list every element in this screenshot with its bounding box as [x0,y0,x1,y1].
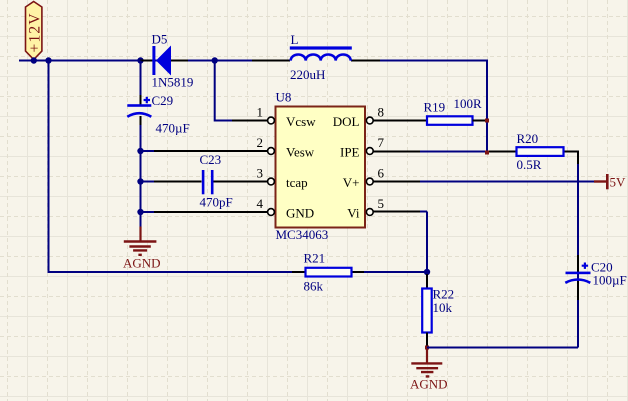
svg-text:Vesw: Vesw [286,145,315,160]
ground AGND right [410,349,448,392]
svg-text:Vi: Vi [347,206,360,221]
svg-text:L: L [291,32,299,47]
svg-text:tcap: tcap [286,175,308,190]
pin 8 DOL [333,105,395,130]
svg-text:R19: R19 [424,100,446,115]
svg-text:1N5819: 1N5819 [152,75,194,90]
wire +12V rail top horizontal [19,60,290,62]
node junction bus to pin2 [137,148,143,154]
svg-text:+12V: +12V [27,12,44,52]
svg-text:470µF: 470µF [156,121,190,136]
svg-text:220uH: 220uH [290,67,325,82]
svg-text:MC34063: MC34063 [276,227,329,242]
node junction top of left bus [45,57,51,63]
svg-text:100R: 100R [454,96,483,111]
wire pin1 branch vertical and row [215,61,267,121]
svg-text:R20: R20 [517,131,539,146]
wire pin3 row through C23 [141,181,268,183]
node junction bus to pin4 [137,209,143,215]
node junction at C29 / diode anode [137,57,143,63]
node red junction vertical to R20 row [485,151,489,155]
IC U8 MC34063 body [276,90,366,243]
svg-text:IPE: IPE [340,145,360,160]
pin 6 V+ [343,166,385,191]
svg-text:5V: 5V [610,175,627,190]
pin 5 Vi [347,196,384,221]
wire pin8 row to R19 [373,120,427,122]
ground AGND left [123,227,161,271]
svg-text:V+: V+ [343,175,360,190]
diode D5 [140,32,193,90]
svg-text:0.5R: 0.5R [517,157,542,172]
pin 4 GND [257,196,315,221]
wire pin6 row to 5V port [373,181,594,183]
svg-text:U8: U8 [276,90,292,105]
svg-text:C29: C29 [152,93,174,108]
wire pin5 to R22 vertical [426,212,428,289]
inductor L [252,32,380,82]
wire pin5 row [373,211,427,213]
resistor R19 [424,96,487,125]
svg-text:7: 7 [378,135,385,150]
resistor R21 [304,251,352,294]
svg-text:1: 1 [257,105,264,120]
node junction R21 / R22 / pin5 net [424,269,430,275]
svg-text:C23: C23 [200,152,222,167]
pin 1 Vcsw [245,105,316,130]
svg-text:3: 3 [257,166,264,181]
node junction bus to C23 [137,178,143,184]
capacitor C20 [565,260,626,288]
svg-text:8: 8 [378,105,385,120]
node junction on +12V rail below flag [31,57,37,63]
wire vertical from top rail down to R20 row [486,60,488,153]
svg-text:AGND: AGND [410,377,448,392]
node red junction R19 to vertical [485,119,489,123]
svg-text:470pF: 470pF [200,195,233,210]
svg-text:2: 2 [257,135,264,150]
pin 7 IPE [340,135,385,160]
pin 2 Vesw [257,135,315,160]
svg-text:5: 5 [378,196,385,211]
wire top rail right of inductor [351,60,487,62]
wire pin4 row [141,211,268,213]
svg-text:6: 6 [378,166,385,181]
wire left bus down and R21 row [49,61,428,273]
svg-text:GND: GND [286,206,314,221]
svg-text:D5: D5 [152,32,168,47]
capacitor C29 [127,93,189,136]
svg-text:86k: 86k [304,279,324,294]
svg-text:Vcsw: Vcsw [286,114,316,129]
node junction at pin1 branch on top rail [212,57,218,63]
power port +12V [26,2,44,60]
svg-text:DOL: DOL [333,114,360,129]
resistor R22 [422,287,454,347]
power port 5V [594,174,626,190]
svg-text:R21: R21 [304,251,326,266]
svg-text:4: 4 [257,196,264,211]
pin 3 tcap [257,166,308,191]
svg-text:100µF: 100µF [593,273,627,288]
svg-text:AGND: AGND [123,256,161,271]
capacitor C23 [200,152,233,210]
wire pin2 row [141,150,268,152]
wire bottom ground net to C20 [427,152,579,348]
wire pin7 row to R20 [373,151,563,153]
wire C29 ground bus vertical [140,61,142,228]
node red junction R22 bottom to ground net [425,346,429,350]
resistor R20 [517,131,564,172]
svg-text:10k: 10k [433,300,453,315]
